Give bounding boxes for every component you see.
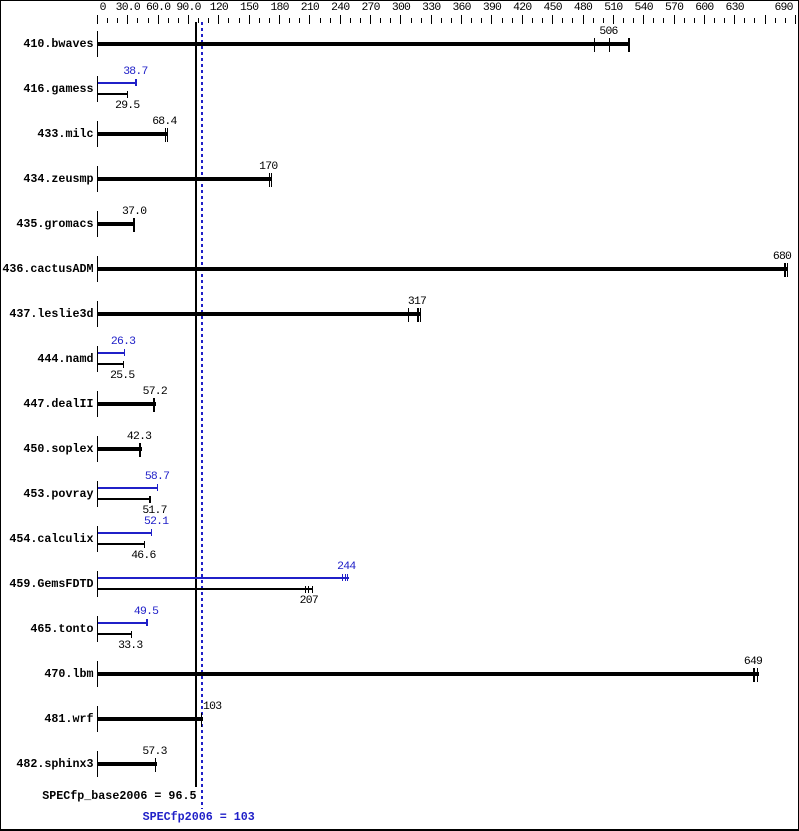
value label 437.leslie3d 317 (397, 297, 437, 307)
value label 410.bwaves 506 (589, 27, 629, 37)
row axis tick 416.gamess (97, 76, 98, 102)
run marks 450.soplex (139, 443, 141, 457)
base bar 454.calculix (98, 543, 145, 545)
run marks 437.leslie3d (408, 308, 409, 322)
base bar 434.zeusmp (98, 177, 272, 181)
base bar end cap 453.povray (149, 496, 150, 503)
base bar 433.milc (98, 132, 167, 136)
peak bar 459.GemsFDTD (98, 577, 349, 579)
row axis tick 410.bwaves (97, 31, 98, 57)
base value label 453.povray 51.7 (135, 506, 175, 516)
peak bar end cap 465.tonto (146, 619, 147, 626)
run marks 481.wrf (201, 713, 203, 727)
value label 470.lbm 649 (733, 657, 773, 667)
peak value label 416.gamess 38.7 (115, 67, 155, 77)
base bar 437.leslie3d (98, 312, 421, 316)
base bar 450.soplex (98, 447, 142, 451)
base bar end cap 465.tonto (131, 631, 132, 638)
value label 436.cactusADM 680 (762, 252, 799, 262)
base value label 444.namd 25.5 (102, 371, 142, 381)
peak bar end cap 416.gamess (135, 79, 136, 86)
row 481.wrf (0, 713, 94, 726)
row axis tick 481.wrf (97, 706, 98, 732)
peak value label 453.povray 58.7 (137, 472, 177, 482)
row axis tick 450.soplex (97, 436, 98, 462)
peak bar 465.tonto (98, 622, 148, 624)
peak bar end cap 453.povray (157, 484, 158, 491)
value label 481.wrf 103 (192, 702, 232, 712)
row axis tick 437.leslie3d (97, 301, 98, 327)
row 444.namd (0, 353, 94, 366)
peak value label 465.tonto 49.5 (126, 607, 166, 617)
base run marks 459.GemsFDTD (305, 586, 306, 593)
run marks 482.sphinx3 (155, 758, 156, 772)
run marks 435.gromacs (133, 218, 135, 232)
row axis tick 444.namd (97, 346, 98, 372)
base value label 416.gamess 29.5 (107, 101, 147, 111)
value label 450.soplex 42.3 (119, 432, 159, 442)
row axis tick 434.zeusmp (97, 166, 98, 192)
SPECfp2006 peak mean dotted line (103) (201, 22, 203, 809)
peak bar end cap 454.calculix (151, 529, 152, 536)
row 416.gamess (0, 83, 94, 96)
value label 434.zeusmp 170 (248, 162, 288, 172)
row axis tick 454.calculix (97, 526, 98, 552)
base bar end cap 444.namd (123, 361, 124, 368)
row 459.GemsFDTD (0, 578, 94, 591)
base bar 459.GemsFDTD (98, 588, 313, 590)
row axis tick 436.cactusADM (97, 256, 98, 282)
peak value label 444.namd 26.3 (103, 337, 143, 347)
run marks 470.lbm (753, 668, 755, 682)
row 437.leslie3d (0, 308, 94, 321)
base bar 465.tonto (98, 633, 132, 635)
base bar end cap 454.calculix (144, 541, 145, 548)
SPECfp2006 peak summary text (143, 811, 343, 824)
base bar 453.povray (98, 498, 151, 500)
row 453.povray (0, 488, 94, 501)
row axis tick 447.dealII (97, 391, 98, 417)
value label 435.gromacs 37.0 (114, 207, 154, 217)
base bar 470.lbm (98, 672, 759, 676)
peak bar 444.namd (98, 352, 125, 354)
row 436.cactusADM (0, 263, 94, 276)
row 450.soplex (0, 443, 94, 456)
value label 482.sphinx3 57.3 (135, 747, 175, 757)
row 433.milc (0, 128, 94, 141)
peak run marks 459.GemsFDTD (342, 574, 343, 581)
row 434.zeusmp (0, 173, 94, 186)
peak bar 453.povray (98, 487, 158, 489)
base bar 416.gamess (98, 93, 128, 95)
peak bar 454.calculix (98, 532, 152, 534)
row axis tick 482.sphinx3 (97, 751, 98, 777)
base bar 481.wrf (98, 717, 203, 721)
base bar 447.dealII (98, 402, 156, 406)
run marks 410.bwaves (594, 38, 596, 52)
peak value label 459.GemsFDTD 244 (326, 562, 366, 572)
row 410.bwaves (0, 38, 94, 51)
x-axis scale labels (83, 3, 123, 13)
row axis tick 453.povray (97, 481, 98, 507)
row 435.gromacs (0, 218, 94, 231)
row 482.sphinx3 (0, 758, 94, 771)
row 470.lbm (0, 668, 94, 681)
SPECfp_base2006 summary text (0, 790, 197, 803)
x-axis tick marks (97, 15, 98, 24)
value label 447.dealII 57.2 (135, 387, 175, 397)
row axis tick 465.tonto (97, 616, 98, 642)
peak value label 454.calculix 52.1 (136, 517, 176, 527)
base bar 436.cactusADM (98, 267, 787, 271)
base bar end cap 416.gamess (127, 91, 128, 98)
base value label 465.tonto 33.3 (110, 641, 150, 651)
peak bar end cap 444.namd (124, 349, 125, 356)
run marks 436.cactusADM (784, 263, 785, 277)
row 447.dealII (0, 398, 94, 411)
run marks 433.milc (165, 128, 166, 142)
base bar 482.sphinx3 (98, 762, 157, 766)
base bar 435.gromacs (98, 222, 135, 226)
base value label 459.GemsFDTD 207 (289, 596, 329, 606)
row 465.tonto (0, 623, 94, 636)
row axis tick 459.GemsFDTD (97, 571, 98, 597)
peak bar 416.gamess (98, 82, 137, 84)
run marks 447.dealII (153, 398, 155, 412)
row 454.calculix (0, 533, 94, 546)
base bar 444.namd (98, 363, 124, 365)
SPECfp_base2006 mean line (96.5) (195, 22, 197, 787)
run marks 434.zeusmp (269, 173, 270, 187)
row axis tick 470.lbm (97, 661, 98, 687)
value label 433.milc 68.4 (144, 117, 184, 127)
base value label 454.calculix 46.6 (123, 551, 163, 561)
row axis tick 435.gromacs (97, 211, 98, 237)
row axis tick 433.milc (97, 121, 98, 147)
base bar 410.bwaves (98, 42, 630, 46)
